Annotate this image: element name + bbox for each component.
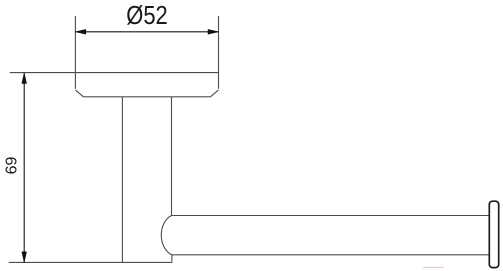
flare arc at arm root <box>161 216 172 255</box>
svg-text:Ø52: Ø52 <box>126 0 168 30</box>
step from arm bottom to post bottom <box>171 255 173 263</box>
arm top edge <box>172 215 490 217</box>
flange right edge + extension line (diameter right) <box>218 16 220 89</box>
flange bottom edge with chamfered corners <box>75 90 218 97</box>
arrowhead bottom of 69 dimension <box>22 252 27 262</box>
post bottom edge + extension line (69 bottom) <box>9 261 172 263</box>
post left edge <box>121 97 123 263</box>
arrowhead left of diameter dimension <box>75 29 86 34</box>
faint watermark line <box>423 267 444 269</box>
extension line (69 top) + flange top edge <box>10 72 219 74</box>
flange left edge + extension line (diameter left) <box>74 16 76 89</box>
dimension line 69 <box>23 73 25 262</box>
post right edge <box>171 97 173 216</box>
arm bottom edge <box>172 254 490 256</box>
arrowhead top of 69 dimension <box>22 73 27 84</box>
end cap <box>489 201 498 267</box>
svg-text:69: 69 <box>4 157 21 175</box>
dimension line diameter 52 <box>75 31 218 33</box>
arrowhead right of diameter dimension <box>208 29 219 34</box>
